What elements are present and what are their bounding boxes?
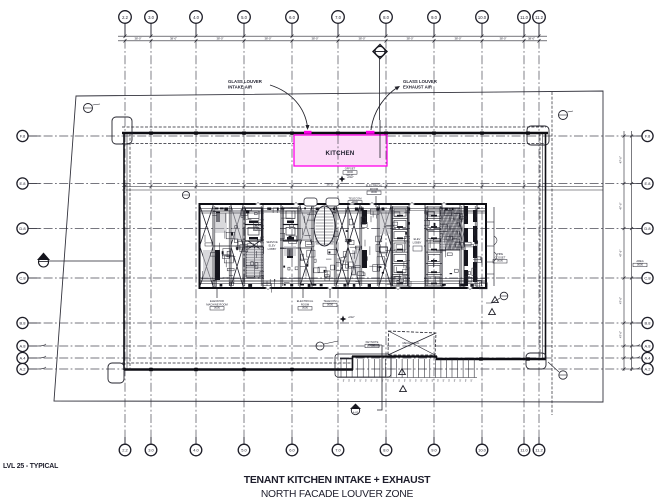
stair B oval	[315, 207, 335, 246]
svg-text:NORTH FACADE LOUVER ZONE: NORTH FACADE LOUVER ZONE	[261, 489, 414, 500]
right dimension string	[623, 131, 634, 371]
intake leader arrow	[270, 85, 308, 127]
duct drop line	[379, 59, 381, 121]
stair B oval redraw	[314, 206, 335, 246]
core gray poche patches	[203, 208, 459, 280]
building east wall	[545, 133, 547, 359]
svg-text:A.2: A.2	[644, 367, 651, 372]
svg-text:LOBBY: LOBBY	[268, 247, 277, 251]
svg-text:5': 5'	[443, 380, 445, 383]
svg-text:ELEV: ELEV	[269, 244, 276, 248]
corner column wrap SW	[108, 363, 124, 383]
core right wall line	[493, 207, 495, 286]
svg-text:5': 5'	[409, 380, 411, 383]
tag: keynote dock	[365, 340, 379, 348]
leader line to detail	[377, 345, 382, 410]
svg-text:5': 5'	[359, 380, 361, 383]
svg-text:0000: 0000	[497, 259, 503, 263]
elevator bank 2 cell stacks	[392, 207, 442, 286]
tag: east	[633, 259, 647, 267]
keynote circle SE corner	[548, 362, 567, 379]
svg-text:38'-0": 38'-0"	[499, 37, 506, 41]
svg-text:11.2: 11.2	[535, 15, 544, 20]
svg-text:EXHAUST AIR: EXHAUST AIR	[403, 85, 433, 90]
left grid bubbles	[17, 130, 46, 374]
svg-text:A.8: A.8	[19, 344, 26, 349]
svg-text:5': 5'	[371, 380, 373, 383]
svg-text:2.2: 2.2	[122, 15, 128, 20]
intake louver mark	[304, 131, 312, 134]
building west wall	[123, 133, 125, 370]
svg-text:5': 5'	[426, 380, 428, 383]
svg-text:0000: 0000	[327, 302, 333, 306]
svg-text:7.0: 7.0	[335, 15, 341, 20]
svg-text:5': 5'	[437, 380, 439, 383]
svg-text:8.0: 8.0	[383, 15, 389, 20]
svg-text:38'-0": 38'-0"	[454, 37, 461, 41]
svg-text:5': 5'	[393, 380, 395, 383]
survey marker left (triangle-capped circle)	[37, 253, 124, 268]
svg-text:9.0: 9.0	[431, 448, 437, 453]
svg-text:E.8: E.8	[19, 181, 26, 186]
svg-text:5': 5'	[470, 380, 472, 383]
tag: elevator machine room	[216, 289, 218, 298]
svg-text:9.0: 9.0	[431, 15, 437, 20]
corner column wrap NE	[527, 126, 549, 145]
svg-text:5': 5'	[348, 380, 350, 383]
svg-text:6.0: 6.0	[289, 448, 295, 453]
tag: pipe right of core	[493, 252, 507, 263]
svg-text:0000: 0000	[302, 306, 308, 310]
facade column markers	[149, 131, 530, 371]
svg-text:F.8: F.8	[645, 134, 651, 139]
svg-text:5': 5'	[343, 380, 345, 383]
building north facade (thick)	[122, 132, 548, 134]
svg-text:MECHANICAL: MECHANICAL	[402, 341, 420, 345]
tag: electrical room	[366, 184, 383, 195]
svg-text:B.8: B.8	[19, 321, 26, 326]
elevator lobby white strips	[264, 211, 424, 281]
building south facade west segment (thick)	[124, 368, 353, 370]
svg-text:A.8: A.8	[644, 344, 651, 349]
core inner walls	[199, 205, 486, 287]
core double-wall lines	[201, 206, 485, 286]
svg-text:47'-6": 47'-6"	[619, 297, 623, 304]
svg-text:5': 5'	[354, 380, 356, 383]
dock platform rounded rect	[335, 354, 391, 377]
svg-text:A-00: A-00	[353, 411, 359, 415]
svg-text:A.4: A.4	[644, 356, 651, 361]
survey diamond top	[373, 45, 387, 59]
svg-text:38'-0": 38'-0"	[264, 37, 271, 41]
svg-text:KITCHEN: KITCHEN	[326, 150, 355, 157]
svg-text:47'-6": 47'-6"	[619, 250, 623, 257]
svg-text:E.8: E.8	[644, 181, 651, 186]
svg-text:GLASS LOUVER: GLASS LOUVER	[228, 79, 263, 84]
svg-text:5': 5'	[404, 380, 406, 383]
svg-text:0000: 0000	[214, 306, 220, 310]
svg-text:5': 5'	[448, 380, 450, 383]
kitchen highlighted zone	[294, 135, 387, 166]
core bottom edge door notches	[266, 287, 472, 289]
stair C diagonal hatch	[440, 208, 466, 250]
grid column lines	[125, 24, 539, 443]
svg-text:10.0: 10.0	[478, 15, 487, 20]
svg-text:4.0: 4.0	[193, 448, 199, 453]
keynote circle bottom	[316, 341, 338, 350]
tag: telecom low	[329, 289, 331, 298]
grid row lines	[28, 136, 642, 369]
misc core clutter	[202, 208, 487, 293]
survey star markers	[339, 176, 346, 183]
svg-text:4.0: 4.0	[193, 15, 199, 20]
keynote circle right of dock	[486, 292, 508, 303]
svg-text:F.8: F.8	[20, 134, 26, 139]
keynote circle core NW	[182, 191, 189, 198]
right grid bubbles	[630, 130, 653, 374]
svg-text:6.0: 6.0	[289, 15, 295, 20]
louver mullion ticks	[337, 359, 477, 378]
svg-text:0000: 0000	[371, 190, 377, 194]
svg-text:10.0: 10.0	[478, 448, 487, 453]
building south facade east segment (thick)	[436, 358, 546, 360]
building core outline	[200, 204, 487, 288]
svg-text:2.2: 2.2	[122, 448, 128, 453]
svg-text:8.0: 8.0	[383, 448, 389, 453]
svg-text:ELEV: ELEV	[414, 237, 421, 241]
south facade jog at dock	[352, 356, 354, 370]
svg-text:D.8: D.8	[644, 226, 651, 231]
exhaust louver mark	[366, 131, 375, 134]
svg-text:7.0: 7.0	[335, 448, 341, 453]
svg-text:C.8: C.8	[644, 276, 651, 281]
keynote circle NE	[559, 111, 574, 120]
svg-text:5': 5'	[454, 380, 456, 383]
svg-text:38'-0": 38'-0"	[528, 37, 535, 41]
svg-text:47'-6": 47'-6"	[619, 331, 623, 338]
exhaust leader arrow	[371, 87, 398, 130]
svg-text:LOBBY: LOBBY	[413, 241, 422, 245]
svg-text:C.8: C.8	[19, 276, 26, 281]
svg-text:3.0: 3.0	[148, 448, 154, 453]
svg-text:5.0: 5.0	[241, 448, 247, 453]
svg-text:+KEY: +KEY	[348, 315, 355, 319]
svg-text:11.0: 11.0	[520, 448, 528, 453]
core top edge door notches	[256, 203, 446, 205]
svg-text:38'-0": 38'-0"	[216, 37, 223, 41]
curtain wall dashed zone north	[122, 92, 552, 415]
svg-text:00'-0": 00'-0"	[347, 173, 354, 177]
corner column wrap SE	[526, 353, 546, 369]
svg-text:5.0: 5.0	[241, 15, 247, 20]
tag: electrical room low	[302, 289, 304, 298]
bottom grid bubbles	[119, 437, 545, 456]
svg-text:LVL 25 - TYPICAL: LVL 25 - TYPICAL	[3, 463, 58, 470]
svg-text:11.0: 11.0	[520, 15, 529, 20]
svg-text:B.8: B.8	[644, 321, 651, 326]
grid 8.0 solid segment through kitchen	[379, 120, 381, 158]
svg-text:0000: 0000	[637, 262, 643, 266]
svg-text:5': 5'	[376, 380, 378, 383]
detail marker circle+triangle	[350, 404, 361, 415]
braced frame bays (X)	[200, 206, 213, 245]
svg-text:0000: 0000	[352, 200, 358, 204]
svg-text:38'-0": 38'-0"	[134, 37, 141, 41]
loading dock trapezoid	[388, 331, 436, 355]
svg-text:5': 5'	[365, 380, 367, 383]
elevator bank 1 cabs	[245, 208, 298, 241]
svg-text:0000: 0000	[369, 343, 375, 347]
svg-text:5': 5'	[415, 380, 417, 383]
glass louver intake air label	[228, 79, 438, 90]
svg-text:5': 5'	[459, 380, 461, 383]
tag: telecom above core	[348, 197, 362, 205]
top grid bubbles	[119, 11, 546, 36]
svg-text:11.2: 11.2	[535, 448, 543, 453]
interior dimension string	[122, 187, 603, 191]
top dimension string	[118, 35, 547, 43]
stair A	[246, 247, 263, 277]
svg-text:5': 5'	[398, 380, 400, 383]
svg-text:A.2: A.2	[19, 367, 26, 372]
svg-text:INTAKE AIR: INTAKE AIR	[228, 85, 253, 90]
svg-text:GLASS LOUVER: GLASS LOUVER	[403, 79, 438, 84]
tag: offset below kitchen	[343, 167, 357, 178]
svg-text:36'-0": 36'-0"	[326, 183, 333, 187]
stair C	[440, 208, 460, 250]
svg-text:5': 5'	[432, 380, 434, 383]
svg-text:47'-6": 47'-6"	[619, 156, 623, 163]
core top vestibule tabs	[304, 198, 339, 206]
grid lines over kitchen	[338, 135, 386, 166]
svg-text:47'-6": 47'-6"	[619, 202, 623, 209]
svg-text:38'-0": 38'-0"	[406, 37, 413, 41]
svg-text:5': 5'	[387, 380, 389, 383]
svg-text:38'-0": 38'-0"	[311, 37, 318, 41]
svg-text:SERVICE: SERVICE	[266, 240, 278, 244]
core dark ticks row	[215, 208, 480, 287]
svg-text:TENANT KITCHEN INTAKE + EXHAUS: TENANT KITCHEN INTAKE + EXHAUST	[244, 475, 431, 486]
corner column wrap NW	[112, 117, 132, 144]
shaft dark bars	[215, 206, 477, 286]
site boundary polygon	[54, 91, 603, 402]
svg-text:D.8: D.8	[19, 226, 26, 231]
svg-text:5': 5'	[465, 380, 467, 383]
svg-text:38'-0": 38'-0"	[170, 37, 177, 41]
svg-text:38'-0": 38'-0"	[358, 37, 365, 41]
svg-text:A.4: A.4	[19, 356, 26, 361]
open triangles	[399, 297, 499, 392]
keynote circle NW	[84, 104, 101, 113]
interior dim ticks	[124, 185, 541, 189]
svg-text:3.0: 3.0	[148, 15, 154, 20]
svg-text:5': 5'	[420, 380, 422, 383]
